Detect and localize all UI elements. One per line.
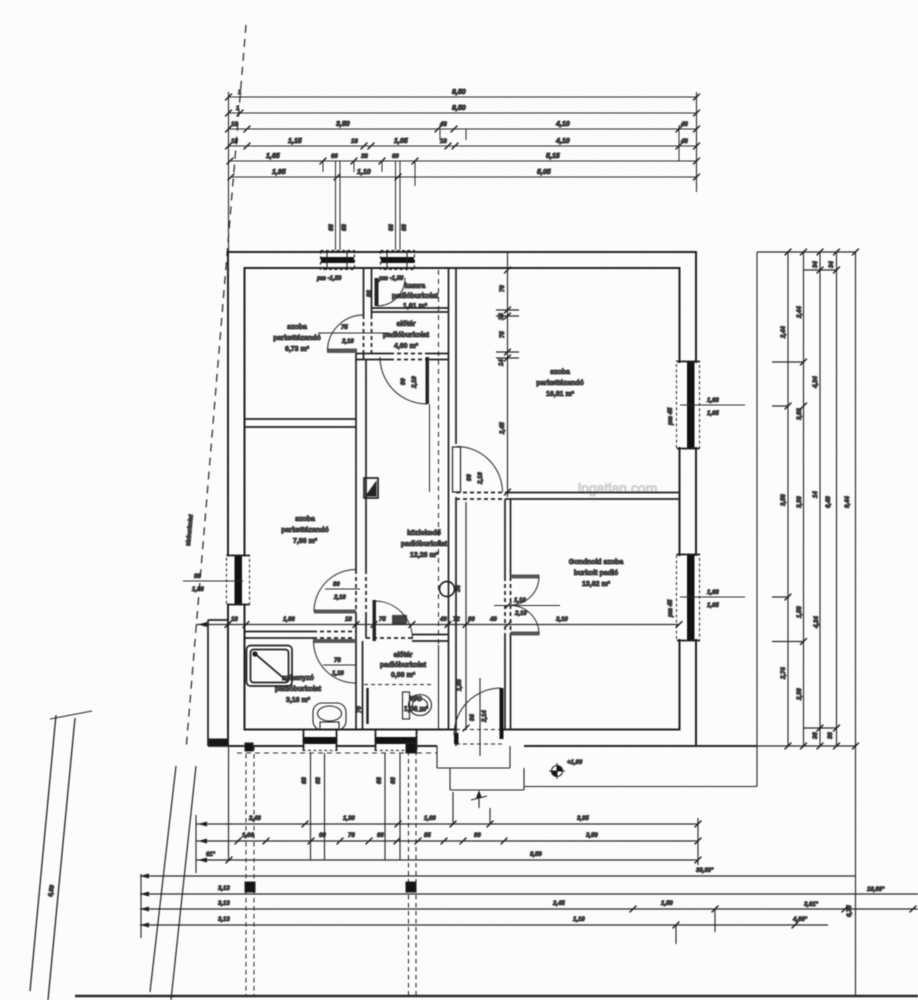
wall V2 interior vertical right bbox=[449, 268, 457, 746]
wire leader room1 hall bbox=[318, 332, 388, 334]
window white bases bbox=[226, 363, 700, 749]
wire window W1 dim bbox=[183, 574, 243, 593]
door D4 hall to corridor bbox=[380, 357, 429, 404]
node top dimension ticks bbox=[225, 94, 700, 196]
wire interior dimension line y624 bbox=[196, 621, 682, 628]
door D5 wc bbox=[373, 600, 413, 641]
wall V1 interior vertical left top segment bbox=[364, 268, 372, 360]
wall H2 right mid divider bbox=[456, 493, 680, 500]
window W5 bottom wall right bbox=[375, 730, 417, 751]
node wc upper label bbox=[380, 652, 427, 679]
entrance arrow bbox=[471, 790, 487, 808]
wire road diagonal B1 bbox=[150, 766, 176, 992]
terrace edge bbox=[524, 252, 757, 787]
wire entrance centre extension bbox=[479, 678, 481, 756]
window W1 left wall bbox=[227, 555, 250, 605]
wire window W2 dim bbox=[668, 398, 745, 426]
node black square at wall foot bbox=[245, 743, 253, 751]
node corridor label bbox=[401, 530, 448, 559]
wire right dimension chain bbox=[696, 249, 859, 995]
wire section dashed pair 1 bbox=[246, 746, 254, 995]
level marker bbox=[549, 760, 583, 779]
door D6 entrance bbox=[454, 688, 504, 744]
wire corridor dashed section line bbox=[438, 270, 440, 729]
wire vertical dim x507 top right room bbox=[496, 253, 519, 497]
node room1 label bbox=[273, 324, 320, 353]
wall V4 wc partition bbox=[438, 645, 440, 730]
fixture bath wc bbox=[313, 703, 346, 730]
node road tick bbox=[50, 711, 92, 719]
node black square markers bbox=[406, 743, 417, 753]
wall V1 interior vertical left bottom segment bbox=[356, 354, 366, 639]
wire road diagonal A2 bbox=[48, 718, 75, 1000]
wire door D4 extension bbox=[429, 404, 431, 492]
door D1 room1 bbox=[327, 315, 364, 353]
wall V3 bath wc divider bbox=[356, 638, 363, 730]
wire site dimension lines bbox=[75, 815, 918, 996]
wire vertical dim x466 corridor bbox=[463, 502, 470, 731]
vent chimney top 1 bbox=[321, 196, 355, 270]
wall outer building rectangle bbox=[228, 252, 757, 746]
node pantry label bbox=[392, 283, 439, 310]
wall V5 caretaker room left bbox=[505, 499, 511, 730]
vent chimney top 2 bbox=[381, 196, 415, 270]
window W2 right wall upper bbox=[677, 361, 700, 449]
node top dimension labels bbox=[231, 89, 688, 176]
fixture toilet bbox=[403, 692, 432, 719]
node wc lower label bbox=[404, 696, 429, 713]
node bath label bbox=[275, 675, 322, 704]
wall wc top bbox=[366, 635, 449, 642]
wire section dashed pair 2 bbox=[409, 751, 417, 995]
wall pantry bottom bbox=[372, 308, 449, 312]
wall H hall bottom bbox=[356, 354, 449, 360]
wall bottom-left protrusion bbox=[208, 620, 228, 746]
node hall label bbox=[383, 321, 430, 350]
node dark threshold bottom left bbox=[209, 739, 228, 746]
node room2 label bbox=[281, 516, 328, 545]
node right chain labels bbox=[781, 261, 851, 739]
node bottom chain labels bbox=[206, 777, 714, 874]
wire road diagonal A1 bbox=[30, 715, 56, 991]
wire window W3 dim bbox=[668, 590, 745, 618]
wire leader D2 bbox=[325, 588, 360, 590]
node caretaker room label bbox=[569, 559, 624, 588]
door D2 room2 bbox=[314, 570, 356, 614]
wall wc inner dashes bbox=[364, 684, 434, 686]
door D7 pantry bbox=[375, 278, 406, 306]
wire road diagonal B2 bbox=[171, 766, 196, 1000]
wire top dimension chain lines bbox=[228, 92, 697, 252]
node interior dimension labels y624 bbox=[231, 616, 568, 625]
node site dimension labels bbox=[218, 886, 885, 923]
fixture shower tray bbox=[247, 646, 293, 687]
door D8 bath bbox=[313, 639, 356, 683]
wire bottom plan dimension chain bbox=[196, 746, 701, 865]
wall wc small partition bbox=[366, 688, 368, 724]
fixture stove bbox=[440, 582, 455, 597]
wire plot boundary dashed diagonal bbox=[186, 25, 246, 750]
porch steps bbox=[437, 746, 524, 790]
wire leader D8 bbox=[323, 664, 356, 666]
fixture shaft bbox=[364, 478, 378, 498]
wall H1 room divider left bbox=[245, 419, 357, 427]
window W4 bottom wall left bbox=[303, 730, 337, 751]
wall H3 bath top bbox=[245, 632, 357, 639]
node top right room label bbox=[536, 369, 583, 398]
door D3 right room bbox=[453, 447, 503, 493]
wire eaves dashed outline bbox=[237, 752, 437, 754]
window W3 right wall lower bbox=[677, 554, 700, 641]
door D9 double swing caretaker bbox=[494, 575, 560, 636]
